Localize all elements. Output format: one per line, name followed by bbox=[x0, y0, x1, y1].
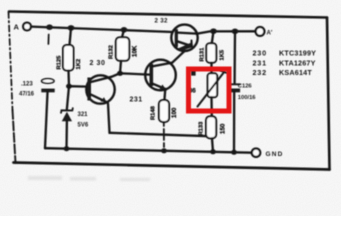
zener diode 321 bbox=[61, 108, 73, 121]
terminal A' bbox=[256, 27, 265, 36]
wire Q230 collector to node J2 bbox=[112, 73, 120, 77]
svg-text:100/16: 100/16 bbox=[238, 95, 257, 101]
terminal A bbox=[23, 23, 31, 31]
svg-text:R133: R133 bbox=[199, 121, 205, 136]
parts list text bbox=[253, 49, 317, 77]
wire top rail left bbox=[31, 27, 173, 32]
node junction J1e bbox=[232, 29, 239, 35]
terminal GND bbox=[252, 149, 260, 157]
wire C123 down to ground rail bbox=[45, 92, 48, 148]
label C123 value bbox=[19, 82, 35, 98]
label trimmer mark1 bbox=[191, 70, 196, 76]
svg-text:GND: GND bbox=[266, 151, 284, 158]
wire 150 ohm to ground rail bbox=[212, 138, 213, 151]
capacitor C123 bbox=[41, 79, 54, 93]
wire capacitor C123 stub bbox=[47, 35, 49, 45]
svg-text:.123: .123 bbox=[21, 82, 33, 88]
wire Q231 emitter to 100 ohm bbox=[164, 90, 165, 107]
wire Q231 collector to Q232 emitter bbox=[172, 51, 185, 63]
wire zener to ground rail bbox=[65, 121, 68, 149]
wire node B to zener bbox=[67, 86, 69, 110]
red highlight box bbox=[189, 69, 230, 111]
svg-text:150: 150 bbox=[220, 123, 227, 134]
resistor R1 bbox=[63, 45, 74, 71]
node junction ground-C126 bbox=[231, 150, 237, 155]
frame border top bbox=[9, 12, 327, 18]
frame border right bbox=[327, 18, 330, 170]
wire rail to resistor 10K bbox=[122, 30, 124, 37]
svg-text:230: 230 bbox=[253, 49, 267, 58]
wire top rail right bbox=[197, 31, 256, 34]
svg-text:2 30: 2 30 bbox=[90, 60, 106, 67]
wire emitter rail across bbox=[110, 133, 213, 137]
wire node B to Q230 base bbox=[69, 85, 88, 88]
wire 10K to J2 bbox=[120, 61, 121, 74]
svg-text:10K: 10K bbox=[132, 45, 139, 57]
svg-text:100: 100 bbox=[171, 107, 178, 118]
svg-text:232: 232 bbox=[253, 68, 267, 77]
node junction J1b bbox=[68, 25, 75, 31]
node junction J1a bbox=[46, 24, 53, 30]
svg-text:KTC3199Y: KTC3199Y bbox=[279, 49, 316, 58]
frame border left dash-dot bbox=[9, 12, 13, 110]
svg-text:R132: R132 bbox=[109, 45, 115, 59]
svg-text:A′: A′ bbox=[267, 31, 273, 37]
wire R131 to trimmer bbox=[210, 63, 212, 74]
wire 100 ohm to ground rail dashed bbox=[163, 122, 165, 151]
svg-text:C126: C126 bbox=[238, 84, 253, 90]
node B junction bbox=[66, 84, 72, 89]
svg-text:KTA1267Y: KTA1267Y bbox=[279, 58, 316, 67]
ground rail wire bbox=[45, 148, 252, 153]
frame border bottom bbox=[14, 163, 330, 170]
svg-text:321: 321 bbox=[78, 112, 89, 118]
svg-text:47/16: 47/16 bbox=[19, 92, 35, 98]
wire R1 to node B bbox=[67, 71, 70, 87]
node junction ground-zener bbox=[64, 146, 70, 151]
node junction J1d bbox=[210, 28, 217, 34]
svg-text:R131: R131 bbox=[200, 47, 206, 62]
wire C126 to ground rail bbox=[233, 92, 235, 152]
capacitor C126 bbox=[229, 84, 240, 92]
wire trimmer to 150 ohm bbox=[210, 97, 213, 116]
svg-text:1K5: 1K5 bbox=[220, 49, 226, 60]
wire Q230 emitter down bbox=[108, 104, 110, 133]
wire rail to resistor R1 bbox=[70, 28, 72, 45]
svg-text:R148: R148 bbox=[151, 105, 157, 120]
transistor Q232 bbox=[171, 25, 197, 51]
wire rail to resistor R131 bbox=[212, 31, 214, 43]
node junction ground-R100 bbox=[161, 148, 167, 153]
resistor 150 bbox=[206, 116, 216, 138]
resistor 100 bbox=[159, 100, 169, 122]
node J2 junction bbox=[117, 71, 123, 76]
transistor Q231 bbox=[145, 60, 176, 91]
svg-text:1K2: 1K2 bbox=[76, 59, 82, 70]
ghost smudge below frame bbox=[28, 176, 150, 181]
svg-text:KSA614T: KSA614T bbox=[279, 68, 312, 77]
resistor R131 above red box bbox=[206, 43, 216, 63]
svg-text:5V6: 5V6 bbox=[78, 123, 89, 129]
trimmer resistor inside red box bbox=[198, 71, 227, 107]
svg-text:231: 231 bbox=[130, 97, 143, 104]
svg-text:A: A bbox=[14, 23, 20, 32]
svg-text:R125: R125 bbox=[57, 55, 63, 70]
wire rail to C126 bbox=[233, 31, 236, 83]
node junction J1c bbox=[121, 27, 128, 33]
resistor 10K bbox=[116, 37, 130, 61]
wire J2 to Q231 base bbox=[120, 73, 150, 74]
svg-text:2 32: 2 32 bbox=[155, 18, 169, 25]
svg-text:231: 231 bbox=[253, 58, 267, 67]
transistor Q230 bbox=[86, 75, 114, 103]
node junction ground-R150 bbox=[210, 149, 216, 154]
